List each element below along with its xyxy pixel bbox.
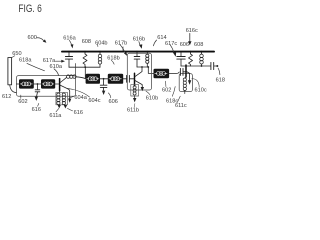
enclosure box 618b bbox=[127, 53, 151, 90]
wire box2 to switch1 bbox=[55, 83, 59, 85]
svg-text:617a: 617a bbox=[43, 58, 56, 64]
svg-text:610a: 610a bbox=[50, 64, 63, 70]
wire stage2 bottom bbox=[137, 66, 147, 68]
leader 616 left bbox=[38, 103, 39, 106]
wire stage1 drop to chain bbox=[84, 67, 86, 78]
svg-text:604b: 604b bbox=[95, 40, 107, 46]
svg-text:618a: 618a bbox=[19, 58, 32, 64]
wire emitter Q3 bbox=[187, 72, 190, 81]
inductor 608 stage3 bbox=[201, 53, 203, 55]
arrow to tuner 610c bbox=[188, 80, 191, 84]
svg-text:611a: 611a bbox=[49, 113, 62, 119]
leader 616 right bbox=[67, 108, 72, 111]
svg-text:618: 618 bbox=[216, 78, 225, 84]
leader arrow 617a bbox=[56, 60, 62, 62]
switch bar Q3 bbox=[185, 65, 187, 77]
wire box1 to box2 bbox=[34, 83, 41, 85]
leader 618a bbox=[27, 63, 45, 70]
wire 604a to box3 bbox=[76, 77, 85, 79]
leader 606 bottom bbox=[108, 93, 111, 98]
svg-text:600: 600 bbox=[28, 35, 37, 41]
capacitor 617b stage2 bbox=[136, 53, 138, 57]
capacitor 606 shunt bbox=[103, 79, 105, 85]
capacitor 617c stage3 bbox=[180, 53, 182, 57]
svg-text:618b: 618b bbox=[107, 55, 119, 61]
inductor box 602 no2 bbox=[41, 79, 55, 88]
arrow to tuner under Q1 bbox=[68, 99, 71, 103]
inductor stage2 bbox=[146, 53, 148, 54]
node 614 aperture bus bbox=[62, 51, 214, 53]
leader 611b bbox=[133, 104, 136, 107]
svg-text:616c: 616c bbox=[186, 28, 198, 34]
arrow to tuner 606 bbox=[102, 91, 105, 95]
svg-text:604c: 604c bbox=[88, 98, 100, 104]
enclosure box 618c bbox=[179, 74, 192, 92]
node output bbox=[216, 65, 218, 67]
leader 618b bbox=[111, 60, 114, 64]
svg-text:612: 612 bbox=[2, 94, 11, 100]
wire stage1 bottom bbox=[69, 66, 100, 68]
leader 610b bbox=[146, 91, 150, 95]
junction dots on bus bbox=[68, 51, 70, 53]
capacitor series output bbox=[210, 62, 212, 69]
antenna element 650 bbox=[8, 58, 12, 85]
arrow under 611a right bbox=[64, 105, 67, 109]
svg-text:608: 608 bbox=[82, 39, 91, 45]
switch bar Q1 bbox=[59, 79, 61, 91]
junction dot stage1 bbox=[84, 66, 86, 68]
wire into box1 bbox=[17, 83, 20, 85]
leader 604a bbox=[69, 96, 74, 98]
junction dot on output wire bbox=[201, 65, 203, 67]
leader 610c bbox=[192, 79, 199, 87]
svg-text:FIG. 6: FIG. 6 bbox=[18, 3, 41, 15]
leader arrow 616b bbox=[138, 42, 141, 45]
leader 602 no1 bbox=[20, 95, 22, 98]
wire stage3 output bbox=[181, 65, 211, 67]
junction dot bbox=[103, 78, 105, 80]
leader 618 bbox=[218, 68, 220, 75]
wire collector Q1 bbox=[60, 78, 66, 83]
leader 604b bbox=[97, 44, 99, 46]
arrow to tuner 610b bbox=[141, 87, 144, 91]
leader 604c bbox=[68, 88, 90, 97]
wire emitter Q2 bbox=[135, 81, 142, 87]
svg-text:611b: 611b bbox=[127, 107, 139, 113]
leader 611a bbox=[56, 108, 59, 111]
svg-text:604a: 604a bbox=[74, 95, 87, 101]
svg-text:650: 650 bbox=[12, 51, 21, 57]
inductor 604a bbox=[67, 75, 70, 78]
resistor 608 stage1 bbox=[83, 53, 87, 68]
inductor stage1 bbox=[99, 53, 101, 55]
svg-text:602: 602 bbox=[18, 99, 27, 105]
svg-text:606: 606 bbox=[180, 42, 189, 48]
capacitor 617a stage1 bbox=[68, 53, 70, 57]
wire feed from antenna bbox=[10, 85, 17, 93]
leader 618c bbox=[172, 87, 175, 97]
inductor module 611a bbox=[56, 92, 68, 104]
leader arrow 617b bbox=[120, 44, 125, 53]
junction dot coil2 bbox=[147, 66, 149, 68]
leader arrow 617c bbox=[170, 45, 174, 52]
svg-text:608: 608 bbox=[194, 42, 203, 48]
inductor box 604c no4 bbox=[108, 74, 123, 84]
junction dot stage2 bbox=[141, 66, 143, 68]
leader 602 no2 bbox=[165, 81, 167, 86]
svg-text:611c: 611c bbox=[175, 103, 187, 109]
leader 614 bbox=[153, 40, 156, 46]
inductor module 611b bbox=[131, 85, 139, 96]
wire box3 to box4 bbox=[100, 78, 108, 80]
svg-text:610c: 610c bbox=[195, 88, 207, 94]
capacitor series stage3 bbox=[179, 68, 181, 75]
capacitor series stage2 bbox=[126, 75, 128, 82]
leader for 600 bbox=[37, 38, 44, 41]
enclosure box 618a bbox=[17, 76, 76, 97]
wire emitter Q1 bbox=[60, 85, 69, 98]
leader 611c bbox=[177, 96, 180, 102]
arrow to tuner 616 left bbox=[35, 97, 38, 101]
wire collector Q2 bbox=[135, 67, 142, 76]
svg-text:616: 616 bbox=[32, 107, 41, 113]
junction dot bbox=[37, 83, 39, 85]
svg-text:616: 616 bbox=[74, 110, 83, 116]
svg-text:616a: 616a bbox=[63, 35, 76, 41]
wire stub above 618a box bbox=[75, 64, 77, 76]
capacitor shunt stage1 chain bbox=[37, 84, 39, 89]
leader 610a bbox=[54, 69, 59, 76]
inductor box 602 no5 bbox=[154, 69, 170, 78]
inductor 611c bbox=[185, 76, 186, 79]
inductor box 602 no1 bbox=[19, 79, 34, 88]
leader arrow 616a bbox=[69, 40, 71, 44]
svg-text:602: 602 bbox=[162, 88, 171, 94]
resistor 606 stage3 bbox=[189, 53, 193, 67]
arrow under 611a bbox=[58, 105, 61, 109]
wire stage2 drop to box5 bbox=[148, 67, 153, 73]
switch bar Q2 bbox=[134, 73, 136, 86]
leader arrow 616c bbox=[189, 33, 191, 41]
inductor box 604b no3 bbox=[86, 74, 100, 84]
arrow under 611b bbox=[134, 96, 136, 98]
svg-text:606: 606 bbox=[109, 99, 118, 105]
tick near 618b bbox=[122, 47, 124, 51]
wire box5 to cap bbox=[169, 72, 179, 73]
wire box4 to cap bbox=[123, 78, 126, 80]
svg-text:610b: 610b bbox=[146, 95, 158, 101]
leader 650 bbox=[12, 56, 15, 58]
